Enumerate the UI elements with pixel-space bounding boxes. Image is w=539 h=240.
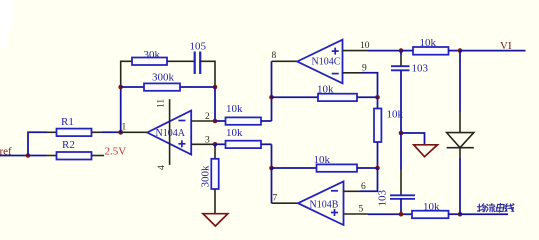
- wire pin3-10k down to feedbackB node: [271, 144, 273, 168]
- wire pin6 up to feedbackB: [360, 168, 378, 191]
- wire gnd tap: [401, 133, 425, 145]
- svg-text:10k: 10k: [387, 109, 404, 121]
- pin 5 stub: [344, 213, 369, 215]
- wire cap103 down to gnd tap: [400, 70, 402, 133]
- junction feedback right: [213, 85, 218, 90]
- glyph 母: [496, 204, 504, 213]
- junction bus left: [399, 212, 404, 217]
- svg-text:R1: R1: [61, 116, 74, 128]
- pin 9 stub: [343, 72, 363, 74]
- svg-text:10k: 10k: [423, 201, 440, 213]
- svg-text:N104B: N104B: [310, 200, 339, 211]
- svg-text:7: 7: [273, 194, 278, 204]
- junction feedbackB left: [269, 166, 274, 171]
- junction feedbackB right: [375, 166, 380, 171]
- junction 10k-right top: [458, 48, 463, 53]
- resistor R2: [47, 139, 105, 160]
- junction pin 3: [213, 142, 218, 147]
- diode branch wire top: [459, 51, 461, 112]
- junction Vref node: [26, 153, 31, 158]
- svg-text:2.5V: 2.5V: [105, 146, 127, 158]
- diode branch wire bottom: [459, 158, 461, 214]
- resistor 10k (pin2): [215, 103, 272, 125]
- junction gnd tap: [399, 131, 404, 136]
- svg-text:103: 103: [412, 63, 429, 75]
- svg-text:10k: 10k: [226, 103, 243, 115]
- resistor R1: [47, 116, 103, 136]
- svg-text:4: 4: [157, 165, 167, 170]
- power pin line 11/4: [169, 99, 171, 165]
- pin 2 stub: [191, 120, 215, 122]
- pin 10 stub: [343, 50, 369, 52]
- capacitor 103 bottom pin stub: [400, 170, 402, 195]
- resistor 30k: [132, 49, 167, 65]
- wire R1 to node 1: [102, 131, 121, 133]
- ground center: [203, 214, 228, 226]
- diode D1: [447, 112, 474, 158]
- wire capacitor to right corner (black): [200, 61, 215, 87]
- svg-text:N104C: N104C: [312, 57, 341, 68]
- pin 8 stub: [272, 60, 298, 62]
- svg-text:VI: VI: [500, 40, 512, 52]
- junction 10k-left top: [399, 48, 404, 53]
- junction bus right: [458, 212, 463, 217]
- wire feedback left vertical: [120, 87, 122, 132]
- wire Vref to R1: [28, 132, 47, 155]
- resistor 10k (pin3): [215, 127, 272, 148]
- svg-text:1: 1: [122, 123, 127, 133]
- svg-text:11: 11: [157, 99, 167, 108]
- wire pin2-10k up to node 8: [271, 97, 273, 121]
- wire Vref net: [0, 155, 47, 157]
- svg-text:300k: 300k: [152, 72, 175, 84]
- scan white patch top-left: [0, 0, 14, 30]
- wire bus to label: [460, 213, 508, 215]
- wire vertical to bottom cap: [400, 133, 402, 170]
- svg-text:10: 10: [360, 41, 370, 51]
- net label 均流母线 (hand-drawn CJK strokes): [478, 204, 514, 213]
- wire feedback left vertical upper (black): [121, 61, 132, 87]
- wire pin10 to node VI-R: [368, 50, 401, 52]
- wire to pin 7: [271, 168, 273, 203]
- svg-text:N104A: N104A: [156, 128, 186, 139]
- pin 1 stub: [121, 131, 148, 133]
- pin 6 stub: [344, 190, 361, 192]
- wire 30k to capacitor 105: [167, 60, 194, 62]
- pin 3 stub: [191, 143, 215, 145]
- ground right: [414, 145, 438, 157]
- svg-text:5: 5: [359, 205, 364, 215]
- svg-text:300k: 300k: [200, 165, 212, 188]
- pin 7 stub: [272, 202, 299, 204]
- junction feedback left: [118, 85, 123, 90]
- resistor 10k (VI): [401, 37, 460, 55]
- glyph 线: [505, 204, 514, 212]
- svg-text:10k: 10k: [420, 37, 437, 49]
- svg-text:10k: 10k: [226, 127, 243, 139]
- wire pin9 down to feedback node: [362, 73, 378, 98]
- capacitor 103 top: [391, 51, 429, 75]
- resistor 300k feedback: [121, 72, 215, 91]
- junction node 8: [269, 95, 274, 100]
- svg-text:8: 8: [272, 51, 277, 61]
- capacitor 103 bottom: [377, 190, 416, 215]
- resistor 10k feedback B: [272, 154, 378, 172]
- resistor 10k (bus): [412, 201, 460, 218]
- wire node8 vertical up: [271, 61, 273, 97]
- capacitor 105: [190, 41, 207, 75]
- resistor 10k vertical: [374, 97, 404, 168]
- resistor 10k feedback C: [272, 84, 378, 102]
- op-amp U1 N104A: [147, 111, 191, 155]
- glyph 流: [486, 204, 495, 212]
- svg-text:30k: 30k: [144, 49, 161, 61]
- wire to VI: [460, 50, 526, 52]
- junction feedbackC right: [375, 95, 380, 100]
- node 1 junction: [118, 130, 123, 135]
- svg-text:R2: R2: [62, 139, 75, 151]
- op-amp U1 N104C: [297, 40, 342, 84]
- glyph 均: [478, 204, 486, 212]
- svg-text:2: 2: [205, 112, 210, 122]
- wire pin5 bus: [368, 213, 412, 215]
- svg-text:10k: 10k: [314, 154, 331, 166]
- svg-text:10k: 10k: [317, 84, 334, 96]
- resistor 300k vertical: [200, 144, 219, 213]
- op-amp U1 N104B: [298, 181, 344, 225]
- wire feedback right vertical to pin 2: [214, 87, 216, 121]
- svg-text:3: 3: [205, 136, 210, 146]
- junction pin 2: [213, 119, 218, 124]
- svg-text:105: 105: [190, 41, 207, 53]
